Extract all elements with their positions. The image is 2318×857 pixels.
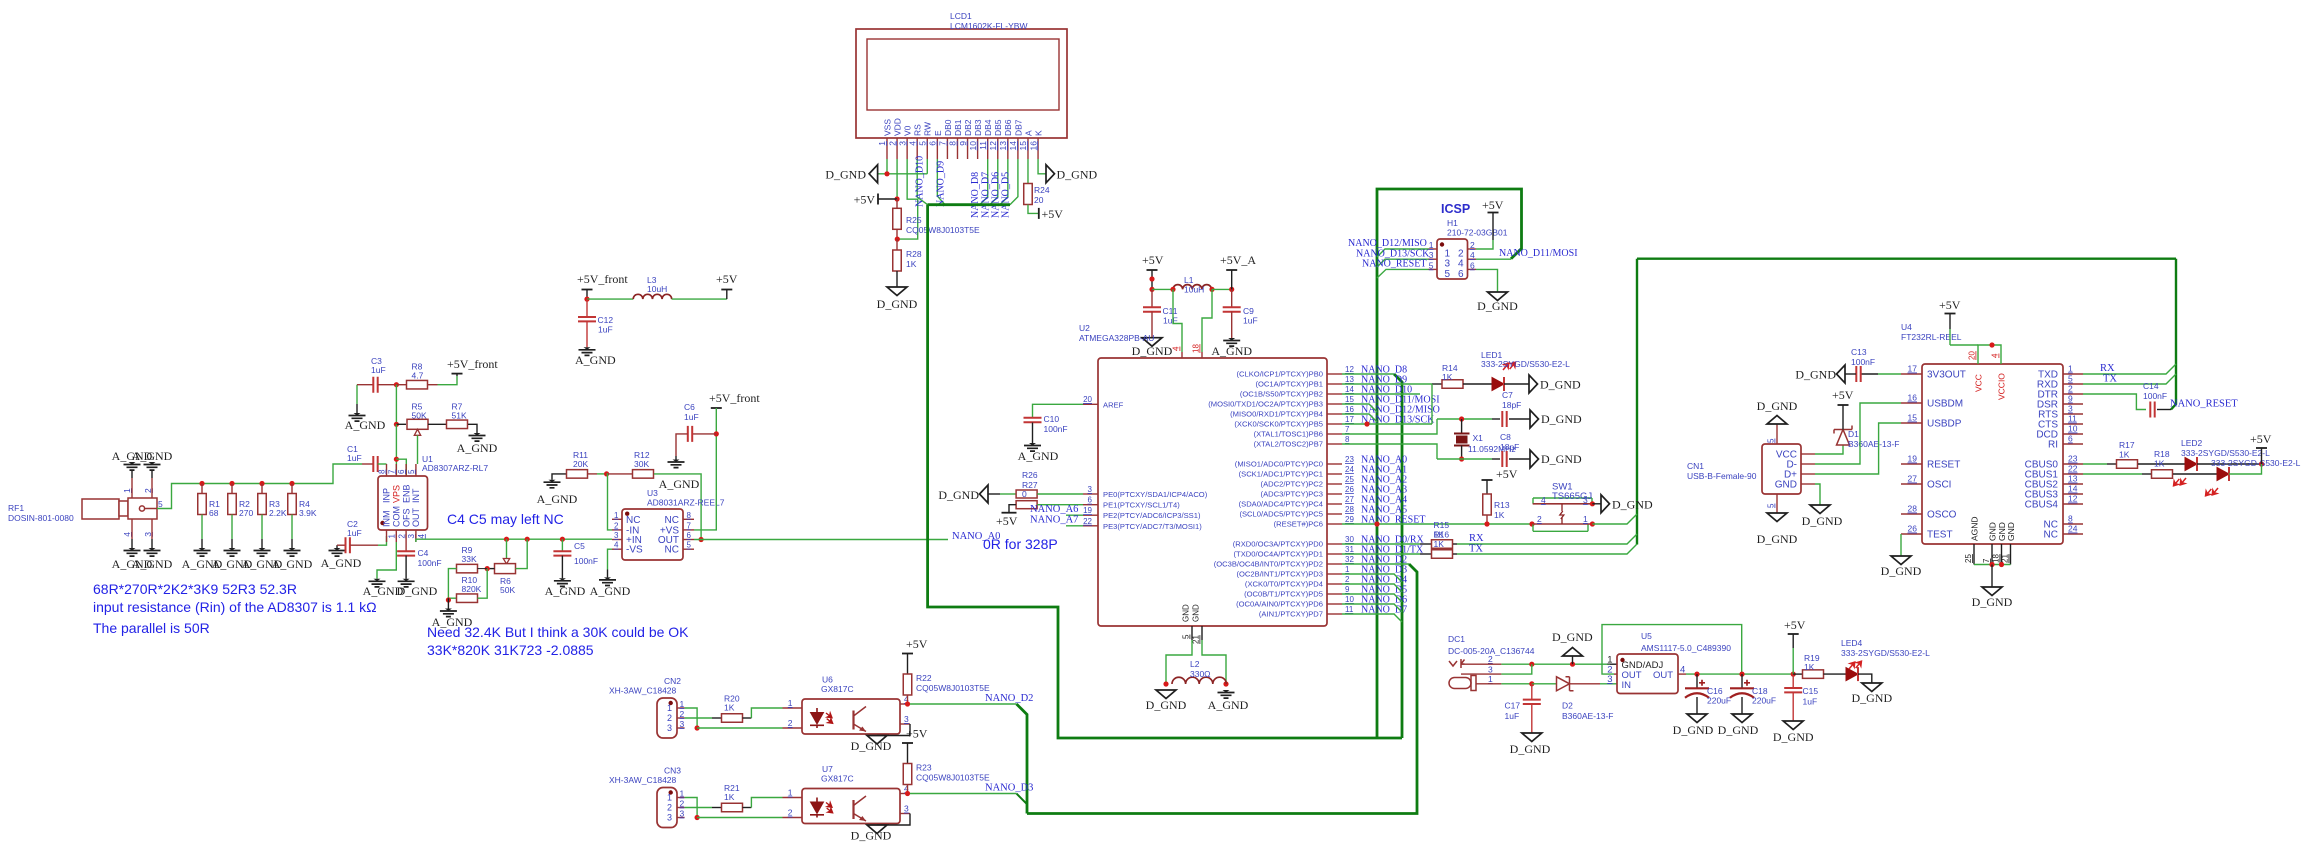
regulator U5 AMS1117-5.0_C489390 bbox=[1617, 654, 1678, 694]
svg-text:8: 8 bbox=[687, 511, 692, 520]
wire D13 up to R14 bbox=[1431, 384, 1433, 424]
pin CN3.1 bbox=[677, 797, 685, 799]
svg-text:5: 5 bbox=[1429, 260, 1434, 270]
LED LED4 333-2SYGD/S530-E2-L bbox=[1846, 668, 1858, 681]
svg-text:DB7: DB7 bbox=[1013, 119, 1023, 136]
svg-text:(MISO1/ADC0/PTCY)PC0: (MISO1/ADC0/PTCY)PC0 bbox=[1235, 460, 1323, 469]
wire RX to bus bbox=[1457, 534, 1637, 544]
pin CN1.5 top bbox=[1776, 425, 1778, 444]
wire CN2 pin2 to R20 bbox=[685, 717, 712, 719]
wire NANO_D row 594 bbox=[1342, 594, 1402, 602]
junction bbox=[1529, 681, 1534, 686]
pin U2.24 bbox=[1327, 473, 1342, 475]
resistor R23 CQ05W8J0103T5E bbox=[903, 764, 912, 785]
svg-text:33K: 33K bbox=[462, 554, 477, 564]
svg-text:FT232RL-REEL: FT232RL-REEL bbox=[1901, 332, 1962, 342]
svg-text:D_GND: D_GND bbox=[1972, 595, 2013, 609]
junction bbox=[1590, 501, 1595, 506]
wire bbox=[1532, 683, 1556, 685]
svg-text:5: 5 bbox=[687, 541, 692, 550]
junction bbox=[1364, 421, 1369, 426]
svg-text:28: 28 bbox=[1908, 504, 1918, 514]
pin X1.1 bbox=[1461, 419, 1463, 434]
ground D_GND LCD right bbox=[1046, 165, 1055, 183]
svg-text:1: 1 bbox=[680, 789, 685, 799]
wire R19 to LED4 bbox=[1824, 673, 1847, 675]
LED3 arrows bbox=[2204, 483, 2220, 500]
wire R5 wiper to U1 INT bbox=[417, 435, 419, 464]
svg-text:RS: RS bbox=[913, 124, 923, 136]
ground D_GND ICSP bbox=[1488, 292, 1508, 301]
wire bbox=[1949, 314, 1951, 330]
wire NANO_A6 bbox=[1066, 514, 1083, 516]
pin C4.1 bbox=[405, 542, 407, 551]
svg-text:2: 2 bbox=[680, 709, 685, 719]
svg-text:PE0(PTCXY/SDA1/ICP4/ACO): PE0(PTCXY/SDA1/ICP4/ACO) bbox=[1103, 490, 1208, 499]
svg-text:50K: 50K bbox=[500, 585, 515, 595]
svg-text:D_GND: D_GND bbox=[1057, 168, 1098, 182]
ground A_GND R1 bbox=[199, 548, 206, 551]
resistor R11 20K bbox=[567, 470, 588, 479]
pin U4.7 GND bbox=[1991, 544, 1993, 565]
svg-text:A_GND: A_GND bbox=[1211, 344, 1252, 358]
pin R13.2 bbox=[1486, 515, 1488, 524]
pin U6.2 bbox=[783, 727, 803, 729]
svg-text:15: 15 bbox=[1908, 413, 1918, 423]
pin C16.1 bbox=[1696, 674, 1698, 688]
svg-text:C4 C5 may left NC: C4 C5 may left NC bbox=[447, 511, 564, 527]
wire bbox=[2173, 473, 2217, 475]
pin R3.1 bbox=[261, 484, 263, 494]
svg-text:6: 6 bbox=[1088, 496, 1093, 505]
wire R14 to LED1 bbox=[1463, 383, 1492, 385]
capacitor C5 100nF bbox=[553, 551, 571, 555]
svg-text:+5V: +5V bbox=[716, 272, 738, 286]
svg-text:DB3: DB3 bbox=[973, 119, 983, 136]
display LCD1 LCM1602K-FL-YBW bbox=[856, 29, 1067, 138]
svg-text:VSS: VSS bbox=[882, 119, 892, 136]
pin C11.2 bbox=[1151, 312, 1153, 338]
pin U2.2 bbox=[1327, 583, 1342, 585]
U7 LED arrows bbox=[822, 801, 836, 815]
svg-text:NANO_D12/MISO: NANO_D12/MISO bbox=[1348, 238, 1427, 249]
svg-text:333-2SYGD/S530-E2-L: 333-2SYGD/S530-E2-L bbox=[1481, 359, 1570, 369]
svg-text:9: 9 bbox=[958, 141, 968, 146]
wire NANO_D row 584 bbox=[1342, 584, 1402, 592]
+5V supply LEDs bbox=[2256, 447, 2267, 449]
pin U7.3 bbox=[900, 813, 910, 815]
svg-text:1uF: 1uF bbox=[684, 412, 699, 422]
pin LCD1.5 bbox=[926, 138, 928, 159]
pin U4.5 bbox=[2063, 383, 2083, 385]
svg-text:100nF: 100nF bbox=[1851, 357, 1875, 367]
svg-text:9: 9 bbox=[1345, 585, 1350, 594]
pin U2.32 bbox=[1327, 563, 1342, 565]
LED LED3 333-2SYGD-S530-E2-L bbox=[2217, 468, 2229, 481]
svg-text:68: 68 bbox=[209, 508, 219, 518]
pin U4.14 bbox=[2063, 493, 2083, 495]
pin U7.4 bbox=[900, 793, 910, 795]
bus NANO_D2 vertical bbox=[1017, 704, 1028, 814]
pin R6.1 bbox=[487, 568, 494, 570]
svg-text:VPS: VPS bbox=[392, 485, 402, 503]
svg-text:10: 10 bbox=[2068, 424, 2078, 434]
resistor R18 1K bbox=[2152, 470, 2173, 479]
pin C18.1 bbox=[1741, 674, 1743, 688]
wire NANO_D row 574 bbox=[1342, 574, 1402, 582]
svg-text:GX817C: GX817C bbox=[821, 774, 854, 784]
svg-text:(OC0A/AIN0/PTCXY)PD6: (OC0A/AIN0/PTCXY)PD6 bbox=[1236, 600, 1323, 609]
svg-text:R22: R22 bbox=[916, 673, 932, 683]
svg-text:D_GND: D_GND bbox=[1540, 378, 1581, 392]
svg-text:D_GND: D_GND bbox=[1757, 532, 1798, 546]
pin R28.1 bbox=[896, 239, 898, 250]
svg-text:210-72-03GB01: 210-72-03GB01 bbox=[1447, 228, 1508, 238]
wire bbox=[1453, 543, 1457, 545]
pin U2.9 bbox=[1327, 593, 1342, 595]
U7 internal LED bbox=[810, 798, 824, 818]
svg-text:A: A bbox=[1023, 130, 1033, 136]
svg-text:6: 6 bbox=[928, 141, 938, 146]
wire USBDM bbox=[1815, 403, 1901, 464]
pin R25.1 bbox=[896, 199, 898, 208]
junction bbox=[525, 537, 530, 542]
wire CBUS1 bbox=[2083, 473, 2142, 475]
wire U1 OUT to U3 +IN (NANO_A0 net) bbox=[416, 539, 612, 542]
svg-text:(RESET#)PC6: (RESET#)PC6 bbox=[1274, 520, 1323, 529]
svg-text:+5V: +5V bbox=[1042, 207, 1064, 221]
svg-text:C15: C15 bbox=[1803, 686, 1819, 696]
svg-text:GND: GND bbox=[1182, 604, 1191, 622]
wire L1 to +5V_A bbox=[1212, 288, 1232, 290]
svg-text:AGND: AGND bbox=[1970, 516, 1980, 541]
capacitor C17 1uF bbox=[1523, 700, 1541, 704]
LED1 arrows bbox=[1501, 358, 1517, 375]
svg-text:+5V: +5V bbox=[906, 727, 928, 741]
junction bbox=[1570, 662, 1575, 667]
wire H1 MISO bbox=[1377, 249, 1429, 257]
bus LCD data down-around bbox=[928, 205, 1402, 738]
svg-text:D_GND: D_GND bbox=[1881, 564, 1922, 578]
op-amp U3 AD8031ARZ-REEL7 bbox=[622, 509, 683, 560]
wire H1 pin6 gnd bbox=[1476, 269, 1498, 292]
+5V supply L1 bbox=[1147, 269, 1158, 271]
wire bbox=[907, 743, 909, 764]
svg-text:USB-B-Female-90: USB-B-Female-90 bbox=[1687, 471, 1757, 481]
svg-text:13: 13 bbox=[1345, 375, 1354, 384]
pin U3.5 bbox=[683, 548, 694, 550]
svg-text:1: 1 bbox=[614, 511, 619, 520]
pin U2.11 bbox=[1327, 613, 1342, 615]
svg-text:20: 20 bbox=[1083, 395, 1092, 404]
pin U4.27 bbox=[1901, 483, 1922, 485]
wire bbox=[2197, 463, 2262, 465]
potentiometer R6 wiper arrow bbox=[503, 559, 509, 564]
wire CBUS0 bbox=[2083, 463, 2107, 465]
svg-text:1: 1 bbox=[788, 698, 793, 708]
svg-text:33K*820K 31K723 -2.0885: 33K*820K 31K723 -2.0885 bbox=[427, 642, 594, 658]
svg-text:7: 7 bbox=[1345, 425, 1350, 434]
svg-text:1uF: 1uF bbox=[1803, 697, 1818, 707]
svg-text:(XTAL1/TOSC1)PB6: (XTAL1/TOSC1)PB6 bbox=[1254, 430, 1323, 439]
svg-text:12: 12 bbox=[1345, 365, 1354, 374]
pin DC1.2 bbox=[1461, 663, 1501, 665]
svg-text:X1: X1 bbox=[1473, 433, 1484, 443]
wire XTAL2 to C8 bbox=[1437, 458, 1492, 460]
wire CN3 pin1 tie bbox=[685, 798, 698, 818]
wire bbox=[131, 471, 133, 478]
svg-text:XH-3AW_C18428: XH-3AW_C18428 bbox=[609, 775, 677, 785]
wire +5V to L1 bbox=[1152, 288, 1173, 290]
pin H1.3 bbox=[1429, 258, 1438, 260]
svg-text:CQ05W8J0103T5E: CQ05W8J0103T5E bbox=[916, 773, 990, 783]
junction bbox=[2259, 461, 2264, 466]
svg-text:+5V: +5V bbox=[1496, 467, 1518, 481]
junction bbox=[894, 196, 899, 201]
svg-text:3: 3 bbox=[897, 141, 907, 146]
svg-text:100nF: 100nF bbox=[418, 558, 442, 568]
junction bbox=[1590, 521, 1595, 526]
wire bbox=[1792, 648, 1794, 674]
junction bbox=[446, 597, 451, 602]
pin U3.3 bbox=[612, 539, 622, 541]
svg-text:R13: R13 bbox=[1494, 500, 1510, 510]
pin U4.25 AGND bbox=[1973, 544, 1975, 565]
pin U4.11 bbox=[2063, 423, 2083, 425]
svg-text:12: 12 bbox=[2068, 494, 2078, 504]
pin C5.2 bbox=[561, 556, 563, 579]
resistor R21 1K bbox=[722, 803, 743, 812]
pin LCD1.8 bbox=[956, 138, 958, 159]
pin U2.25 bbox=[1327, 483, 1342, 485]
svg-text:1K: 1K bbox=[1804, 662, 1815, 672]
wire LCD A bbox=[1027, 159, 1029, 184]
wire NANO_D10 bbox=[1342, 393, 1420, 395]
svg-text:2.2K: 2.2K bbox=[269, 508, 287, 518]
wire gnd to R11 bbox=[552, 474, 566, 480]
svg-text:AD8031ARZ-REEL7: AD8031ARZ-REEL7 bbox=[647, 498, 725, 508]
ground A_GND R10 bbox=[445, 609, 452, 612]
svg-text:NANO_A7: NANO_A7 bbox=[1030, 515, 1078, 526]
pin X1.2 bbox=[1461, 446, 1463, 460]
pin U5.2 bbox=[1614, 673, 1617, 675]
svg-text:R25: R25 bbox=[906, 215, 922, 225]
ground A_GND R4 bbox=[289, 548, 296, 551]
resistor R27 0 bbox=[1016, 501, 1037, 509]
pin U1.4 bbox=[415, 530, 417, 542]
pin C12.2 bbox=[586, 321, 588, 347]
svg-text:21: 21 bbox=[1192, 635, 1201, 644]
wire NANO_D9 to R14 bbox=[1342, 383, 1432, 385]
svg-text:1: 1 bbox=[122, 488, 132, 493]
ground D_GND CN1 shield top bbox=[1767, 416, 1787, 425]
svg-text:16: 16 bbox=[1908, 393, 1918, 403]
svg-text:C4: C4 bbox=[418, 548, 429, 558]
pin U4.16 bbox=[1901, 402, 1922, 404]
resistor R14 1K bbox=[1442, 380, 1463, 389]
wire bbox=[675, 456, 677, 460]
pin U1.8 bbox=[386, 464, 388, 476]
svg-text:D1: D1 bbox=[1848, 429, 1859, 439]
wire bbox=[1420, 543, 1431, 545]
svg-text:U3: U3 bbox=[647, 488, 658, 498]
junction bbox=[905, 791, 910, 796]
svg-text:D_GND: D_GND bbox=[1773, 730, 1814, 744]
svg-text:A_GND: A_GND bbox=[545, 584, 586, 598]
junction bbox=[1999, 562, 2004, 567]
+5V supply D1 bbox=[1838, 404, 1849, 406]
pin U1.5 bbox=[415, 464, 417, 476]
wire R20 to U6 pin1 bbox=[751, 708, 782, 718]
pin U4.2 bbox=[2063, 393, 2083, 395]
pin U4.26 bbox=[1901, 533, 1922, 535]
U6 LED arrows bbox=[822, 711, 836, 725]
wire bbox=[1592, 503, 1601, 505]
+5V supply R27 bbox=[1002, 512, 1017, 514]
svg-text:3.9K: 3.9K bbox=[299, 508, 317, 518]
pin R22.2 bbox=[907, 695, 909, 704]
junction bbox=[560, 537, 565, 542]
svg-text:+5V_front: +5V_front bbox=[577, 272, 628, 286]
pin C15.2 bbox=[1792, 692, 1794, 721]
capacitor C3 1uF bbox=[373, 377, 377, 393]
svg-text:26: 26 bbox=[1345, 485, 1354, 494]
wire bbox=[1151, 270, 1153, 289]
pin U7.2 bbox=[783, 817, 803, 819]
svg-text:2: 2 bbox=[667, 803, 672, 813]
svg-text:NANO_D5: NANO_D5 bbox=[1000, 172, 1011, 218]
svg-text:C17: C17 bbox=[1505, 701, 1521, 711]
wire bbox=[456, 374, 458, 376]
pin U4.18 GND bbox=[2001, 544, 2003, 565]
wire U1 COM to gnd bbox=[377, 542, 396, 579]
svg-text:13: 13 bbox=[998, 141, 1008, 151]
wire LCD E NANO_D9 bbox=[937, 159, 945, 205]
wire XTAL1 PB6 bbox=[1342, 419, 1437, 434]
svg-text:A_GND: A_GND bbox=[345, 418, 386, 432]
svg-text:220uF: 220uF bbox=[1752, 696, 1776, 706]
wire to L3 bbox=[587, 298, 633, 300]
wire CN2 pin3 to U6 pin2 bbox=[697, 727, 782, 729]
svg-text:24: 24 bbox=[2068, 524, 2078, 534]
svg-text:3: 3 bbox=[614, 531, 619, 540]
capacitor C10 100nF bbox=[1024, 418, 1042, 422]
svg-text:28: 28 bbox=[1345, 505, 1354, 514]
svg-text:XH-3AW_C18428: XH-3AW_C18428 bbox=[609, 686, 677, 696]
svg-text:+5V: +5V bbox=[1784, 618, 1806, 632]
LED LED1 333-2SYGD/S530-E2-L bbox=[1492, 378, 1504, 391]
pin RF1.2 bbox=[151, 478, 153, 498]
pin CN2.1 bbox=[677, 707, 685, 709]
pin LCD1.7 bbox=[946, 138, 948, 159]
pin R28.2 bbox=[896, 271, 898, 287]
svg-text:3: 3 bbox=[1429, 250, 1434, 260]
pin LCD1.13 bbox=[1007, 138, 1009, 159]
wire bbox=[1845, 373, 1856, 375]
pin U2.16 bbox=[1327, 413, 1342, 415]
junction bbox=[394, 382, 399, 387]
capacitor C9 1uF bbox=[1223, 307, 1241, 311]
svg-text:DB2: DB2 bbox=[963, 119, 973, 136]
svg-text:1uF: 1uF bbox=[371, 365, 386, 375]
wire bbox=[607, 570, 609, 578]
svg-text:U7: U7 bbox=[822, 764, 833, 774]
connector CN3 XH-3AW_C18428 bbox=[657, 788, 677, 828]
wire NANO_D0/RX bbox=[1342, 543, 1420, 545]
junction bbox=[1149, 287, 1154, 292]
junction bbox=[1374, 521, 1379, 526]
junction bbox=[604, 471, 609, 476]
pin DC1.3 bbox=[1461, 673, 1501, 675]
svg-text:C8: C8 bbox=[1500, 432, 1511, 442]
wire D2 to U5 IN bbox=[1600, 683, 1617, 685]
svg-text:OFS: OFS bbox=[401, 508, 411, 527]
svg-text:11: 11 bbox=[1345, 605, 1354, 614]
svg-text:LCD1: LCD1 bbox=[950, 11, 972, 21]
svg-text:D_GND: D_GND bbox=[938, 488, 979, 502]
junction bbox=[199, 481, 204, 486]
svg-text:4: 4 bbox=[1172, 346, 1181, 351]
wire bbox=[291, 539, 293, 548]
svg-text:PE1(PTCXY/SCL1/T4): PE1(PTCXY/SCL1/T4) bbox=[1103, 501, 1180, 510]
svg-text:L2: L2 bbox=[1190, 659, 1200, 669]
svg-text:7: 7 bbox=[387, 469, 396, 474]
ground A_GND R11 bbox=[549, 480, 556, 483]
capacitor C16 220uF polarized bbox=[1685, 687, 1709, 689]
pin U2.27 bbox=[1327, 503, 1342, 505]
svg-text:15: 15 bbox=[1345, 395, 1354, 404]
svg-text:0R for 328P: 0R for 328P bbox=[983, 536, 1058, 552]
wire NANO_RESET row bbox=[1342, 523, 1532, 525]
svg-text:3V3OUT: 3V3OUT bbox=[1927, 370, 1966, 381]
connector RF1 DOSIN-801-0080 bbox=[82, 498, 157, 519]
connector DC1 DC-005-20A_C136744 bbox=[1449, 659, 1476, 691]
svg-text:100nF: 100nF bbox=[1044, 424, 1068, 434]
svg-text:+5V: +5V bbox=[1939, 298, 1961, 312]
pin U4.17 bbox=[1901, 373, 1922, 375]
svg-text:NC: NC bbox=[2044, 530, 2058, 541]
wire bbox=[1509, 418, 1530, 420]
svg-text:R28: R28 bbox=[906, 249, 922, 259]
pin U4.6 bbox=[2063, 443, 2083, 445]
svg-text:3: 3 bbox=[1488, 665, 1493, 675]
ground D_GND LCD left bbox=[869, 165, 878, 183]
pin C4.2 bbox=[405, 556, 407, 579]
svg-text:330Ω: 330Ω bbox=[1190, 669, 1211, 679]
svg-text:ENB: ENB bbox=[401, 484, 411, 503]
pin U2.22 bbox=[1083, 525, 1098, 527]
LED LED2 333-2SYGD/S530-E2-L bbox=[2185, 458, 2197, 471]
svg-text:RI: RI bbox=[2048, 440, 2058, 451]
svg-text:RW: RW bbox=[923, 122, 933, 136]
ground D_GND C17 bbox=[1522, 733, 1542, 742]
svg-text:(MOSI0/TXD1/OC2A/PTCXY)PB3: (MOSI0/TXD1/OC2A/PTCXY)PB3 bbox=[1208, 400, 1323, 409]
wire VCC to D1 bbox=[1815, 445, 1843, 454]
wire bbox=[1504, 383, 1529, 385]
svg-text:12: 12 bbox=[988, 141, 998, 151]
wire bbox=[597, 473, 607, 475]
pin D2.2 bbox=[1570, 683, 1601, 685]
svg-text:PE3(PTCY/ADC7/T3/MOSI1): PE3(PTCY/ADC7/T3/MOSI1) bbox=[1103, 522, 1202, 531]
wire bbox=[356, 404, 358, 413]
svg-text:7: 7 bbox=[938, 141, 948, 146]
junction bbox=[485, 566, 490, 571]
wire DC1 pin3 tie bbox=[1501, 664, 1531, 674]
svg-text:19: 19 bbox=[1908, 454, 1918, 464]
wire bbox=[2107, 463, 2116, 465]
resistor R16 1K bbox=[1432, 550, 1453, 559]
wire LED4 gnd bbox=[1858, 674, 1872, 683]
